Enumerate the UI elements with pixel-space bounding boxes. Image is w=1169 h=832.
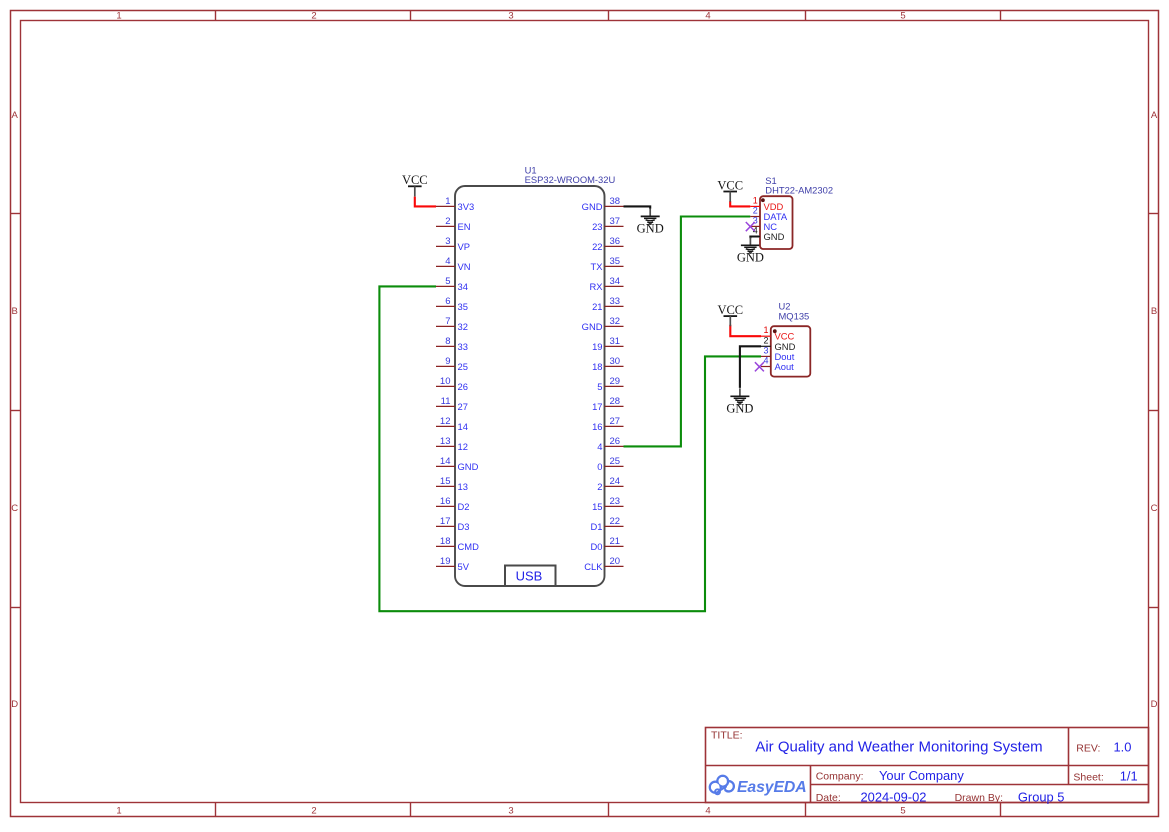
svg-text:4: 4: [705, 806, 710, 817]
svg-text:23: 23: [610, 496, 621, 507]
svg-text:35: 35: [610, 256, 621, 267]
svg-text:1: 1: [116, 806, 121, 817]
svg-text:34: 34: [458, 281, 468, 292]
svg-text:GND: GND: [582, 201, 603, 212]
svg-text:DHT22-AM2302: DHT22-AM2302: [765, 185, 833, 196]
svg-text:Aout: Aout: [775, 361, 795, 372]
svg-text:9: 9: [445, 356, 450, 367]
svg-text:5: 5: [597, 381, 602, 392]
svg-text:Your Company: Your Company: [879, 768, 964, 783]
svg-text:19: 19: [440, 556, 451, 567]
svg-text:18: 18: [592, 361, 602, 372]
svg-text:13: 13: [440, 436, 451, 447]
svg-text:1: 1: [753, 195, 758, 205]
svg-text:31: 31: [610, 336, 621, 347]
svg-text:B: B: [12, 306, 18, 317]
svg-text:26: 26: [610, 436, 621, 447]
svg-text:3: 3: [763, 345, 768, 355]
svg-text:VCC: VCC: [717, 178, 743, 192]
svg-text:1/1: 1/1: [1120, 769, 1138, 784]
svg-text:VCC: VCC: [717, 303, 743, 317]
svg-text:7: 7: [445, 316, 450, 327]
svg-text:26: 26: [458, 381, 468, 392]
svg-text:4: 4: [705, 10, 710, 21]
svg-text:12: 12: [458, 441, 468, 452]
svg-text:4: 4: [763, 356, 768, 366]
svg-text:21: 21: [592, 301, 602, 312]
svg-text:D0: D0: [591, 541, 603, 552]
svg-text:GND: GND: [582, 321, 603, 332]
svg-text:20: 20: [610, 556, 621, 567]
svg-text:17: 17: [440, 516, 451, 527]
svg-text:19: 19: [592, 341, 602, 352]
svg-text:D1: D1: [591, 521, 603, 532]
svg-text:Company:: Company:: [816, 771, 864, 783]
svg-text:14: 14: [458, 421, 468, 432]
svg-text:12: 12: [440, 416, 451, 427]
svg-text:EN: EN: [458, 221, 471, 232]
svg-text:27: 27: [458, 401, 468, 412]
svg-text:21: 21: [610, 536, 621, 547]
svg-text:Sheet:: Sheet:: [1073, 771, 1103, 783]
svg-text:3: 3: [508, 10, 513, 21]
svg-text:2024-09-02: 2024-09-02: [861, 789, 927, 804]
svg-text:29: 29: [610, 376, 621, 387]
svg-text:C: C: [11, 503, 18, 514]
svg-text:32: 32: [610, 316, 621, 327]
svg-text:2: 2: [311, 806, 316, 817]
svg-text:16: 16: [440, 496, 451, 507]
svg-text:1: 1: [445, 196, 450, 207]
svg-text:33: 33: [458, 341, 468, 352]
svg-text:CMD: CMD: [458, 541, 480, 552]
svg-text:2: 2: [311, 10, 316, 21]
svg-text:27: 27: [610, 416, 621, 427]
svg-text:1: 1: [763, 325, 768, 335]
svg-text:B: B: [1151, 306, 1157, 317]
svg-text:VP: VP: [458, 241, 471, 252]
svg-text:A: A: [12, 110, 19, 121]
svg-text:37: 37: [610, 216, 621, 227]
svg-text:16: 16: [592, 421, 602, 432]
svg-text:15: 15: [592, 501, 602, 512]
svg-text:2: 2: [763, 335, 768, 345]
svg-text:TITLE:: TITLE:: [711, 730, 743, 742]
svg-text:11: 11: [441, 396, 451, 407]
svg-text:0: 0: [597, 461, 602, 472]
svg-text:17: 17: [592, 401, 602, 412]
svg-text:GND: GND: [458, 461, 479, 472]
svg-text:36: 36: [610, 236, 621, 247]
svg-text:D: D: [11, 699, 18, 710]
svg-text:6: 6: [445, 296, 450, 307]
svg-text:CLK: CLK: [584, 561, 603, 572]
svg-text:MQ135: MQ135: [779, 310, 810, 321]
svg-text:13: 13: [458, 481, 468, 492]
svg-text:3: 3: [445, 236, 450, 247]
svg-text:25: 25: [458, 361, 468, 372]
svg-text:Date:: Date:: [816, 792, 841, 804]
svg-text:VN: VN: [458, 261, 471, 272]
svg-text:18: 18: [440, 536, 451, 547]
svg-text:Group 5: Group 5: [1018, 789, 1065, 804]
svg-text:GND: GND: [737, 251, 764, 265]
svg-text:REV:: REV:: [1076, 743, 1100, 755]
svg-text:25: 25: [610, 456, 621, 467]
svg-text:D3: D3: [458, 521, 470, 532]
svg-text:EasyEDA: EasyEDA: [737, 779, 807, 796]
svg-text:1: 1: [116, 10, 121, 21]
svg-text:5: 5: [445, 276, 450, 287]
svg-text:2: 2: [445, 216, 450, 227]
svg-text:5: 5: [900, 10, 905, 21]
svg-text:2: 2: [597, 481, 602, 492]
svg-text:D: D: [1151, 699, 1158, 710]
svg-text:Air Quality and Weather Monito: Air Quality and Weather Monitoring Syste…: [755, 739, 1042, 756]
svg-text:24: 24: [610, 476, 621, 487]
svg-text:4: 4: [445, 256, 450, 267]
svg-text:23: 23: [592, 221, 602, 232]
svg-text:USB: USB: [516, 569, 543, 584]
svg-text:34: 34: [610, 276, 621, 287]
svg-text:GND: GND: [764, 231, 785, 242]
svg-text:32: 32: [458, 321, 468, 332]
svg-text:15: 15: [440, 476, 451, 487]
svg-text:Drawn By:: Drawn By:: [955, 792, 1003, 804]
svg-text:35: 35: [458, 301, 468, 312]
svg-text:A: A: [1151, 110, 1158, 121]
svg-text:C: C: [1151, 503, 1158, 514]
svg-text:14: 14: [440, 456, 451, 467]
svg-text:1.0: 1.0: [1114, 740, 1132, 755]
svg-text:5V: 5V: [458, 561, 470, 572]
svg-text:8: 8: [445, 336, 450, 347]
svg-text:GND: GND: [637, 222, 664, 236]
svg-text:22: 22: [592, 241, 602, 252]
svg-text:RX: RX: [589, 281, 603, 292]
svg-text:28: 28: [610, 396, 621, 407]
svg-text:D2: D2: [458, 501, 470, 512]
svg-text:2: 2: [753, 206, 758, 216]
svg-text:5: 5: [900, 806, 905, 817]
svg-text:22: 22: [610, 516, 621, 527]
svg-text:38: 38: [610, 196, 621, 207]
svg-text:ESP32-WROOM-32U: ESP32-WROOM-32U: [525, 174, 616, 185]
svg-text:30: 30: [610, 356, 621, 367]
svg-text:10: 10: [440, 376, 451, 387]
svg-text:33: 33: [610, 296, 621, 307]
svg-text:TX: TX: [591, 261, 604, 272]
svg-text:3V3: 3V3: [458, 201, 475, 212]
svg-text:GND: GND: [726, 402, 753, 416]
svg-text:3: 3: [508, 806, 513, 817]
svg-text:4: 4: [597, 441, 602, 452]
svg-text:VCC: VCC: [402, 173, 428, 187]
